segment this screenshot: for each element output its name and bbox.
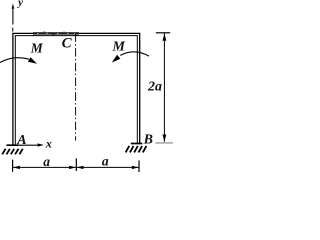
support A hatching <box>2 149 23 155</box>
frame inner lines <box>15 36 137 145</box>
svg-text:M: M <box>30 41 44 56</box>
svg-text:x: x <box>45 136 52 150</box>
right moment arc <box>120 52 149 56</box>
y-axis shaft <box>12 8 14 25</box>
svg-text:a: a <box>102 153 109 168</box>
svg-text:M: M <box>111 39 125 54</box>
svg-text:B: B <box>143 132 153 147</box>
frame outer lines (left column outer, beam top, right column outer) <box>13 33 140 145</box>
support A base bar <box>7 144 19 146</box>
bottom dim left tick <box>12 160 14 172</box>
y-axis dash segment <box>12 28 14 32</box>
x-axis <box>15 144 39 146</box>
2a bottom tick (gray) <box>155 142 173 144</box>
support B hatching <box>126 146 147 153</box>
svg-text:C: C <box>62 36 73 52</box>
left moment arc <box>0 58 29 63</box>
bottom dim middle tick <box>75 158 77 171</box>
2a dimension line <box>163 33 165 142</box>
support B base bar <box>131 143 143 145</box>
2a bottom arrowhead <box>163 135 167 142</box>
beam dark smudge segment <box>33 32 79 34</box>
right moment arrowhead <box>112 55 121 63</box>
svg-text:a: a <box>43 154 50 169</box>
x-axis arrowhead <box>38 143 44 146</box>
arrow at right tick (points right) <box>132 166 139 169</box>
svg-text:y: y <box>16 0 23 8</box>
left moment arrowhead <box>28 57 37 64</box>
bottom dimension line <box>13 166 140 168</box>
y-axis arrowhead <box>12 3 15 8</box>
arrow at left tick (points left) <box>13 166 20 169</box>
bottom dim right tick <box>138 160 140 172</box>
arrow pair at middle tick <box>69 166 76 169</box>
centerline at C (dash-dot) <box>75 33 77 140</box>
2a top arrowhead <box>163 33 167 40</box>
svg-text:2a: 2a <box>147 80 162 95</box>
2a dimension top tick <box>156 32 170 34</box>
